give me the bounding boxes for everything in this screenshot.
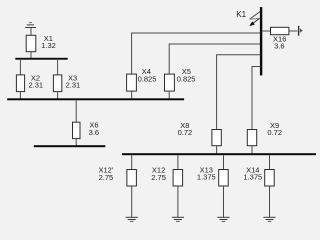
reactance X13 [219,170,229,187]
feeder wire X8 to bus B3 [217,55,261,130]
feeder wire X9 to bus B3 [252,67,260,130]
svg-text:0.825: 0.825 [177,74,196,83]
wire X2 to bus B2 [19,92,21,99]
label X12 2.75 [151,166,166,182]
reactance X5 [165,74,175,91]
ground (source earth, inverted) above X1 [25,23,36,28]
wire X1 to bus B1 [30,52,32,59]
svg-text:2.75: 2.75 [99,173,114,182]
wire X8 to bus B5 [216,146,218,154]
reactance X8 [212,130,221,146]
bus B4 [34,145,106,147]
svg-text:0.72: 0.72 [178,128,193,137]
svg-text:3.6: 3.6 [89,128,99,137]
reactance X3 [53,75,61,92]
wire bus B1 to X2 [19,60,21,75]
network feeder symbol [298,26,303,36]
wire bus B5 to X12' [131,155,133,169]
label X12' 2.75 [99,166,114,182]
label X5 0.825 [177,67,196,83]
bus B2 (main left bus) [7,98,184,100]
wire X14 to ground [269,186,271,217]
label X16 3.6 [273,34,286,50]
feeder wire X4 to bus B3 [132,33,261,74]
ground below X12 [172,217,184,221]
reactance X1 [26,35,36,51]
wire bus B1 to X3 [57,60,59,75]
bus B1 [15,58,67,60]
wire bus B5 to X13 [223,155,225,169]
label X3 2.31 [66,73,81,89]
svg-text:2.31: 2.31 [28,80,43,89]
wire X6 to bus B4 [75,139,77,146]
svg-text:0.825: 0.825 [138,74,157,83]
wire X4 to bus B2 [131,91,133,98]
bus B3 (faulted bus, vertical) [260,7,262,75]
svg-text:3.6: 3.6 [274,42,284,51]
reactance X9 [247,130,256,146]
label X14 1.375 [243,165,262,181]
wire X12 to ground [177,186,179,217]
svg-text:2.31: 2.31 [66,80,81,89]
label X13 1.375 [197,165,216,181]
reactance X12' [127,170,136,187]
wire X5 to bus B2 [168,91,170,98]
wire bus B5 to X14 [269,155,271,169]
wire X13 to ground [223,186,225,217]
reactance X6 [73,122,81,138]
wire bus B3 to X16 [262,30,270,32]
ground below X14 [263,217,275,221]
reactance X14 [265,170,275,187]
label X2 2.31 [28,73,43,89]
bus B5 (bottom right bus) [122,153,316,155]
label X1 1.32 [41,34,56,50]
wire X16 to network feeder [289,30,297,32]
label X6 3.6 [89,121,99,137]
fault arrow K1 [249,12,260,27]
wire X9 to bus B5 [251,146,253,154]
label X9 0.72 [267,121,282,137]
wire bus B5 to X12 [177,155,179,169]
wire X3 to bus B2 [57,92,59,99]
svg-text:0.72: 0.72 [267,128,282,137]
reactance X16 (horizontal) [271,27,289,34]
label X8 0.72 [178,121,193,137]
label X4 0.825 [138,67,157,83]
reactance X12 [173,170,183,187]
ground below X13 [217,217,229,221]
wire ground to X1 [30,27,32,35]
wire X12' to ground [131,186,133,217]
svg-text:2.75: 2.75 [151,173,166,182]
svg-text:1.375: 1.375 [197,173,216,182]
reactance X4 [127,74,137,91]
svg-text:1.32: 1.32 [41,41,56,50]
svg-text:1.375: 1.375 [243,173,262,182]
feeder wire X5 to bus B3 [169,44,260,74]
ground below X12' [126,217,138,221]
svg-text:K1: K1 [236,10,246,19]
wire bus B2 to X6 [75,100,77,122]
reactance X2 [16,75,24,92]
